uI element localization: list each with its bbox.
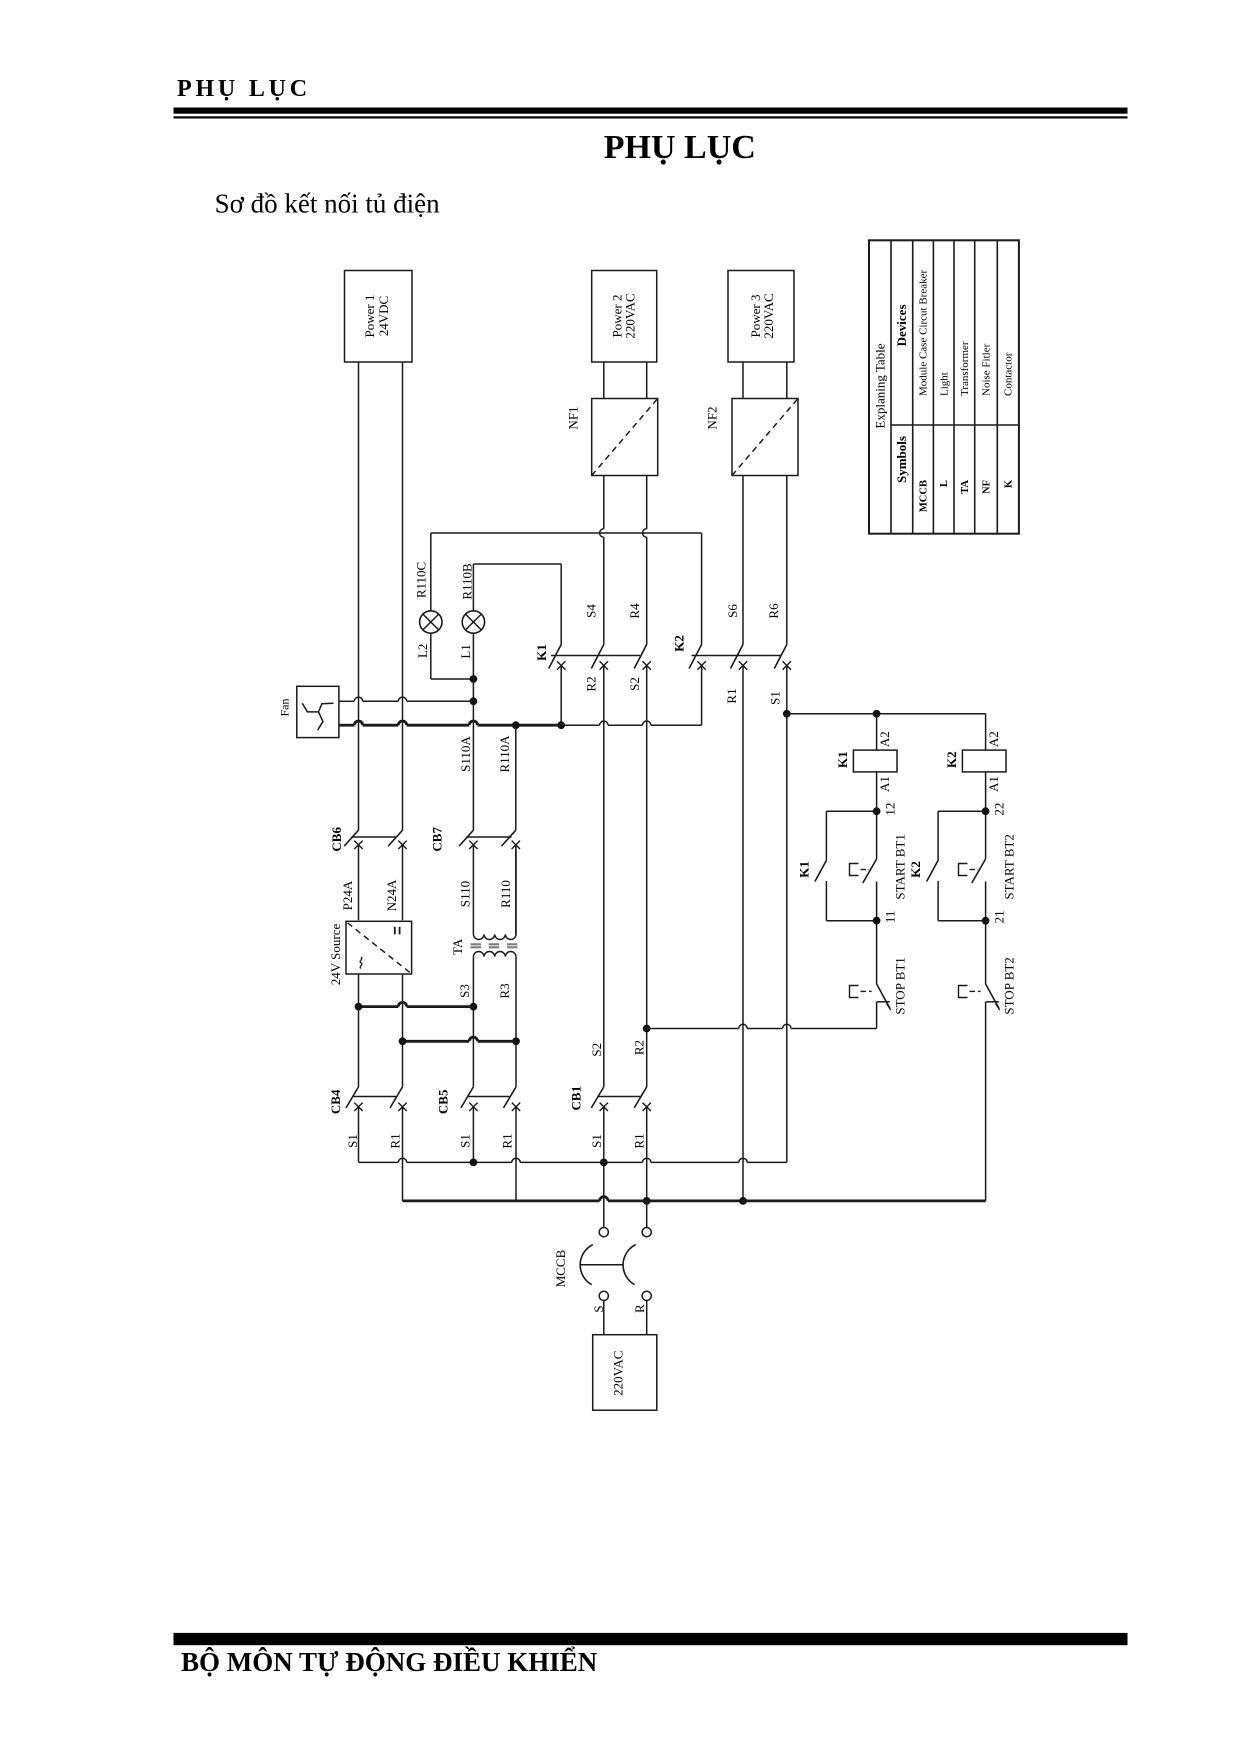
- svg-text:START BT2: START BT2: [1001, 834, 1016, 899]
- svg-text:R6: R6: [766, 603, 781, 619]
- svg-text:K2: K2: [944, 751, 959, 768]
- svg-text:CB5: CB5: [435, 1089, 450, 1114]
- svg-text:R110C: R110C: [413, 562, 428, 598]
- svg-text:CB6: CB6: [329, 827, 344, 852]
- svg-text:Light: Light: [938, 372, 950, 396]
- svg-text:CB7: CB7: [429, 827, 444, 852]
- svg-text:TA: TA: [450, 938, 465, 955]
- svg-text:21: 21: [991, 910, 1006, 923]
- svg-text:K1: K1: [796, 861, 811, 878]
- svg-text:R4: R4: [627, 603, 642, 619]
- svg-text:24VDC: 24VDC: [376, 296, 391, 336]
- svg-text:L: L: [939, 480, 950, 487]
- svg-text:TA: TA: [960, 480, 971, 494]
- svg-text:NF1: NF1: [565, 406, 580, 429]
- svg-text:R110: R110: [498, 880, 513, 908]
- svg-text:K2: K2: [672, 635, 687, 652]
- svg-text:S110: S110: [457, 881, 472, 907]
- svg-text:R: R: [632, 1304, 647, 1313]
- svg-text:220VAC: 220VAC: [623, 293, 638, 338]
- svg-text:K1: K1: [534, 644, 549, 661]
- svg-text:P24A: P24A: [340, 880, 355, 910]
- svg-text:S110A: S110A: [458, 736, 473, 772]
- svg-text:R2: R2: [631, 1040, 646, 1055]
- svg-text:R1: R1: [631, 1133, 646, 1148]
- svg-text:R1: R1: [499, 1133, 514, 1148]
- svg-text:12: 12: [882, 803, 897, 816]
- svg-text:PHỤ LỤC: PHỤ LỤC: [604, 129, 756, 166]
- svg-text:S4: S4: [583, 604, 598, 618]
- svg-text:Module Case Circut Breaker: Module Case Circut Breaker: [918, 270, 930, 396]
- svg-text:A2: A2: [877, 731, 892, 747]
- svg-text:R3: R3: [497, 983, 512, 998]
- svg-text:K1: K1: [835, 751, 850, 768]
- svg-text:MCCB: MCCB: [919, 480, 930, 512]
- svg-text:22: 22: [991, 803, 1006, 816]
- svg-text:Symbols: Symbols: [894, 436, 909, 483]
- svg-text:BỘ MÔN TỰ ĐỘNG ĐIỀU KHIỂN: BỘ MÔN TỰ ĐỘNG ĐIỀU KHIỂN: [181, 1646, 598, 1677]
- svg-text:Sơ đồ kết nối tủ điện: Sơ đồ kết nối tủ điện: [215, 189, 441, 219]
- svg-text:11: 11: [882, 911, 897, 924]
- svg-text:MCCB: MCCB: [553, 1249, 568, 1287]
- svg-text:CB4: CB4: [328, 1089, 343, 1114]
- svg-text:K: K: [1004, 479, 1015, 488]
- svg-text:Explaning Table: Explaning Table: [872, 343, 887, 428]
- svg-text:CB1: CB1: [569, 1086, 584, 1111]
- svg-text:R1: R1: [388, 1133, 403, 1148]
- svg-text:STOP BT2: STOP BT2: [1001, 957, 1016, 1014]
- svg-text:START BT1: START BT1: [892, 834, 907, 899]
- svg-text:R110B: R110B: [459, 563, 474, 600]
- svg-text:S1: S1: [457, 1134, 472, 1148]
- svg-text:A1: A1: [986, 776, 1001, 792]
- svg-text:A1: A1: [877, 776, 892, 792]
- svg-text:S1: S1: [345, 1134, 360, 1148]
- svg-text:R110A: R110A: [497, 735, 512, 773]
- svg-text:PHỤ LỤC: PHỤ LỤC: [177, 76, 311, 102]
- svg-text:NF: NF: [981, 480, 992, 494]
- svg-text:Contactor: Contactor: [1003, 352, 1015, 396]
- svg-text:Devices: Devices: [894, 304, 909, 346]
- svg-text:R2: R2: [583, 676, 598, 691]
- svg-text:Transformer: Transformer: [959, 341, 971, 396]
- svg-text:24V Source: 24V Source: [328, 924, 343, 986]
- svg-text:A2: A2: [986, 731, 1001, 747]
- svg-text:N24A: N24A: [384, 879, 399, 911]
- svg-text:Power 1: Power 1: [362, 295, 377, 338]
- svg-text:Noise Fitler: Noise Fitler: [981, 343, 993, 396]
- svg-text:S2: S2: [589, 1043, 604, 1057]
- svg-text:220VAC: 220VAC: [761, 293, 776, 338]
- svg-text:S1: S1: [768, 691, 783, 705]
- svg-text:S1: S1: [589, 1134, 604, 1148]
- svg-text:Fan: Fan: [277, 699, 291, 717]
- svg-text:K2: K2: [908, 861, 923, 878]
- svg-text:L1: L1: [458, 644, 473, 658]
- svg-text:STOP BT1: STOP BT1: [892, 957, 907, 1014]
- svg-text:S6: S6: [725, 604, 740, 618]
- svg-text:220VAC: 220VAC: [611, 1351, 626, 1396]
- svg-text:NF2: NF2: [704, 406, 719, 429]
- svg-text:S3: S3: [457, 984, 472, 998]
- svg-text:R1: R1: [724, 688, 739, 703]
- svg-text:S2: S2: [627, 677, 642, 691]
- svg-text:L2: L2: [415, 644, 430, 658]
